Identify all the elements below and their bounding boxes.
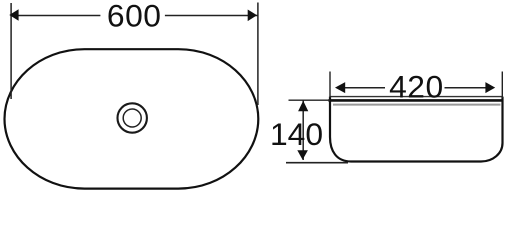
dim420 dimension line left segment: [344, 87, 385, 89]
dim140 top extension line: [289, 99, 331, 101]
dim420 left arrowhead: [335, 82, 345, 93]
drain inner circle: [123, 109, 141, 127]
dim600 left arrowhead: [9, 9, 18, 21]
dim600 dimension line left segment: [11, 15, 100, 17]
dim600 left extension line: [10, 3, 12, 99]
side view top rim thin line: [330, 96, 502, 98]
dim140 vertical dimension line: [302, 101, 304, 161]
dim420 left extension line: [329, 72, 331, 99]
side view outline: [330, 97, 503, 162]
side view top rim edge: [328, 99, 503, 102]
drain outer circle: [118, 103, 147, 132]
top view basin outline: [5, 49, 259, 188]
dim600 right arrowhead: [248, 10, 257, 22]
svg-text:140: 140: [270, 116, 323, 152]
dim420 right extension line: [501, 72, 503, 99]
dim600 dimension line right segment: [165, 15, 258, 17]
dim140 down arrowhead: [297, 150, 308, 160]
dim420 right arrowhead: [485, 82, 495, 93]
side view inner rim line: [333, 104, 501, 106]
svg-text:420: 420: [389, 69, 444, 105]
dim140 up arrowhead: [298, 101, 308, 112]
dim600 right extension line: [257, 3, 259, 106]
dim140 bottom extension line: [286, 162, 348, 164]
svg-text:600: 600: [107, 0, 162, 33]
dim420 dimension line right segment: [445, 87, 487, 89]
